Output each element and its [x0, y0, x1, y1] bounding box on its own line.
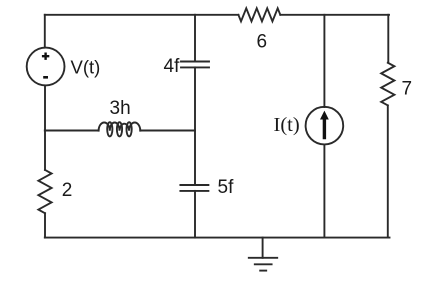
wire middle branch upper: [194, 15, 196, 62]
plus sign of V(t): [42, 53, 49, 60]
wire top: left corner to right corner with gap for R6: [45, 14, 389, 16]
resistor R6: [238, 8, 280, 21]
current source I(t): [306, 107, 344, 145]
wire right branch upper: [387, 15, 389, 63]
capacitor C1 4f: [181, 62, 209, 68]
capacitor C2 5f: [180, 185, 208, 191]
resistor R7: [381, 63, 394, 106]
svg-text:6: 6: [257, 31, 268, 52]
svg-text:3h: 3h: [110, 98, 131, 119]
wire right branch lower: [387, 105, 389, 237]
arrow of current source: [320, 111, 329, 140]
wire left branch middle: [44, 85, 46, 169]
resistor 2: [38, 170, 51, 213]
wire current-source branch upper: [323, 15, 325, 107]
ground: [249, 238, 277, 271]
svg-text:I(t): I(t): [274, 114, 300, 136]
wire inductor to middle branch: [140, 130, 195, 132]
wire node A horizontal (left to inductor): [45, 130, 99, 132]
inductor 3h: [99, 122, 141, 136]
minus sign of V(t): [43, 76, 48, 79]
wire bottom rail: [45, 237, 390, 239]
svg-text:2: 2: [62, 180, 73, 201]
wire left branch upper: [44, 15, 46, 48]
svg-text:5f: 5f: [218, 177, 235, 198]
wire middle branch center: [194, 67, 196, 185]
voltage source V(t): [27, 48, 65, 86]
wire left branch lower: [44, 213, 46, 237]
svg-text:7: 7: [402, 79, 413, 100]
wire middle branch lower: [194, 191, 196, 238]
svg-text:V(t): V(t): [71, 56, 101, 77]
svg-text:4f: 4f: [164, 56, 181, 77]
wire current-source branch lower: [323, 144, 325, 237]
